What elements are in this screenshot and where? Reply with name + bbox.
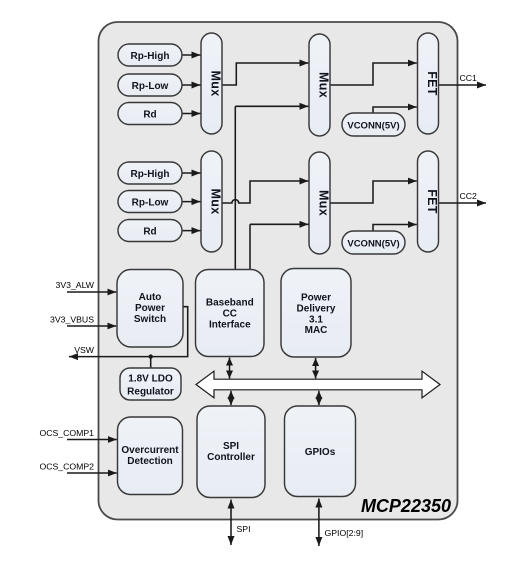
svg-text:Mux: Mux bbox=[209, 71, 223, 97]
svg-text:FET: FET bbox=[425, 71, 439, 96]
svg-text:Rd: Rd bbox=[143, 227, 156, 238]
svg-text:Mux: Mux bbox=[209, 189, 223, 215]
svg-text:CC2: CC2 bbox=[460, 191, 478, 201]
svg-text:VCONN(5V): VCONN(5V) bbox=[347, 121, 399, 132]
svg-text:Interface: Interface bbox=[209, 320, 251, 331]
svg-text:FET: FET bbox=[425, 189, 439, 214]
svg-text:3V3_ALW: 3V3_ALW bbox=[56, 280, 95, 290]
svg-text:GPIO[2:9]: GPIO[2:9] bbox=[325, 528, 364, 538]
svg-text:Regulator: Regulator bbox=[127, 387, 174, 398]
svg-text:OCS_COMP2: OCS_COMP2 bbox=[39, 462, 94, 472]
svg-text:SPI: SPI bbox=[223, 441, 239, 452]
svg-text:Power: Power bbox=[135, 303, 165, 314]
svg-text:Mux: Mux bbox=[317, 190, 331, 216]
svg-text:VSW: VSW bbox=[74, 345, 95, 355]
svg-text:Power: Power bbox=[301, 293, 331, 304]
svg-text:3V3_VBUS: 3V3_VBUS bbox=[50, 315, 94, 325]
svg-text:1.8V LDO: 1.8V LDO bbox=[128, 374, 173, 385]
svg-text:Rp-Low: Rp-Low bbox=[132, 198, 169, 209]
svg-text:Rp-Low: Rp-Low bbox=[132, 81, 169, 92]
svg-text:Auto: Auto bbox=[139, 292, 162, 303]
svg-text:Detection: Detection bbox=[127, 456, 173, 467]
svg-text:VCONN(5V): VCONN(5V) bbox=[347, 239, 399, 250]
svg-text:Rp-High: Rp-High bbox=[131, 169, 170, 180]
svg-text:MCP22350: MCP22350 bbox=[361, 496, 451, 516]
svg-text:Mux: Mux bbox=[317, 72, 331, 98]
svg-text:Delivery: Delivery bbox=[297, 304, 336, 315]
svg-text:Rp-High: Rp-High bbox=[131, 51, 170, 62]
svg-text:CC: CC bbox=[223, 309, 237, 320]
svg-text:OCS_COMP1: OCS_COMP1 bbox=[39, 428, 94, 438]
svg-text:CC1: CC1 bbox=[460, 73, 478, 83]
svg-text:MAC: MAC bbox=[305, 325, 328, 336]
svg-text:3.1: 3.1 bbox=[309, 315, 323, 326]
svg-text:Switch: Switch bbox=[134, 314, 166, 325]
svg-text:SPI: SPI bbox=[237, 524, 251, 534]
svg-text:Controller: Controller bbox=[207, 452, 255, 463]
svg-text:Rd: Rd bbox=[143, 110, 156, 121]
svg-text:Overcurrent: Overcurrent bbox=[121, 445, 179, 456]
svg-text:Baseband: Baseband bbox=[206, 298, 254, 309]
svg-text:GPIOs: GPIOs bbox=[305, 447, 336, 458]
